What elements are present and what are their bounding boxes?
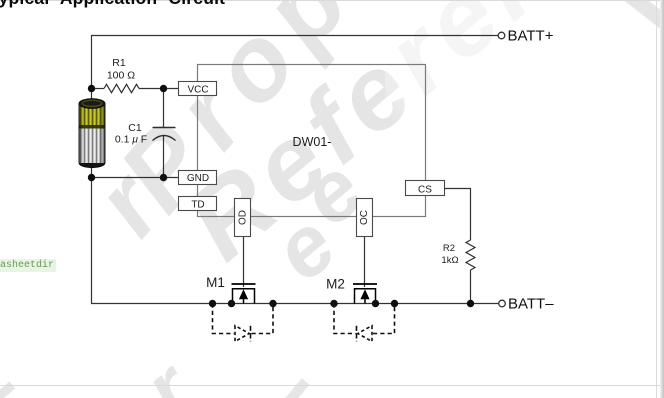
watermark fragment bottom small bbox=[283, 378, 310, 398]
svg-text:CS: CS bbox=[418, 185, 432, 196]
wire OD to M1 gate bbox=[243, 237, 245, 288]
svg-text:M1: M1 bbox=[206, 275, 225, 290]
window edge strip right bbox=[660, 0, 664, 398]
title Typical Application Circuit (cut off at top) bbox=[0, 0, 225, 9]
transistor M2 bbox=[353, 284, 377, 304]
watermark fragment letter r (tile, left) bbox=[72, 152, 184, 257]
capacitor C1 bbox=[153, 127, 176, 129]
svg-text:C1: C1 bbox=[128, 122, 142, 134]
pin TD bbox=[179, 197, 217, 211]
junction M1 left (dashed box) bbox=[209, 300, 216, 307]
junction M2 left (dashed box) bbox=[330, 300, 337, 307]
watermark fragment bottom-left corner bbox=[0, 381, 15, 398]
watermark word Reference bbox=[164, 0, 664, 284]
svg-text:DW01-: DW01- bbox=[293, 135, 332, 149]
pin GND bbox=[179, 171, 217, 185]
wire battery minus column bbox=[91, 166, 93, 304]
svg-text:R1: R1 bbox=[112, 57, 126, 69]
wire BATT+ top rail bbox=[91, 35, 499, 37]
junction M2 source bbox=[372, 300, 379, 307]
svg-text:100 Ω: 100 Ω bbox=[107, 70, 135, 82]
svg-text:1kΩ: 1kΩ bbox=[441, 255, 458, 266]
body diode D2 (dashed) bbox=[334, 304, 395, 342]
resistor R2 bbox=[466, 240, 475, 270]
transistor M1 bbox=[232, 284, 256, 304]
terminal BATT- bbox=[499, 300, 506, 307]
wire R2 bottom bbox=[470, 270, 472, 304]
junction M2 right (dashed box) bbox=[391, 300, 398, 307]
wire CS to R2 bbox=[444, 189, 471, 241]
pin CS bbox=[406, 181, 445, 196]
svg-text:GND: GND bbox=[187, 173, 209, 184]
page top border bbox=[0, 0, 664, 1]
svg-text:VCC: VCC bbox=[187, 85, 208, 96]
wire left branch (battery column) bbox=[91, 36, 93, 102]
junction M1 right (dashed box) bbox=[269, 300, 276, 307]
battery B1 bbox=[79, 99, 105, 168]
junction M1 drain bbox=[228, 300, 235, 307]
watermark fragment letter e (tile 2) bbox=[282, 140, 381, 245]
svg-text:BATT–: BATT– bbox=[508, 296, 554, 313]
IC U1 DW01 body bbox=[198, 65, 426, 217]
svg-text:OD: OD bbox=[238, 210, 249, 225]
watermark word Proper bbox=[96, 0, 464, 234]
watermark fade (upper right) bbox=[385, 0, 570, 120]
junction C1 top bbox=[160, 85, 167, 92]
svg-text:M2: M2 bbox=[326, 277, 345, 292]
svg-text:TD: TD bbox=[191, 200, 204, 211]
wire C1 branch bbox=[163, 89, 165, 128]
svg-text:R2: R2 bbox=[443, 243, 455, 254]
pin VCC bbox=[179, 82, 217, 96]
page bottom border bbox=[0, 385, 664, 386]
pin OD bbox=[235, 199, 251, 237]
page right border bbox=[656, 0, 657, 398]
junction R2 / BATT- rail bbox=[467, 300, 474, 307]
wire R1 row bbox=[91, 88, 104, 90]
body diode D1 (dashed) bbox=[213, 304, 274, 342]
wire GND row bbox=[91, 177, 179, 179]
junction C1 bottom bbox=[160, 174, 167, 181]
watermark datasheetdir bbox=[0, 259, 56, 272]
svg-text:OC: OC bbox=[359, 210, 370, 225]
pin OC bbox=[357, 199, 373, 237]
svg-text:0.1 μ F: 0.1 μ F bbox=[115, 134, 147, 146]
watermark fragment top-right corner bbox=[624, 0, 664, 36]
junction battery minus / GND row bbox=[88, 174, 95, 181]
terminal BATT+ bbox=[498, 32, 505, 39]
resistor R1 bbox=[104, 84, 139, 92]
watermark fragment lower-left stem bbox=[127, 344, 210, 398]
wire OC to M2 gate bbox=[364, 237, 366, 288]
junction battery plus / R1 bbox=[88, 85, 95, 92]
watermark fragment letter e (tile) bbox=[255, 195, 354, 300]
wire BATT- bottom rail bbox=[91, 303, 499, 305]
svg-text:BATT+: BATT+ bbox=[508, 28, 554, 45]
